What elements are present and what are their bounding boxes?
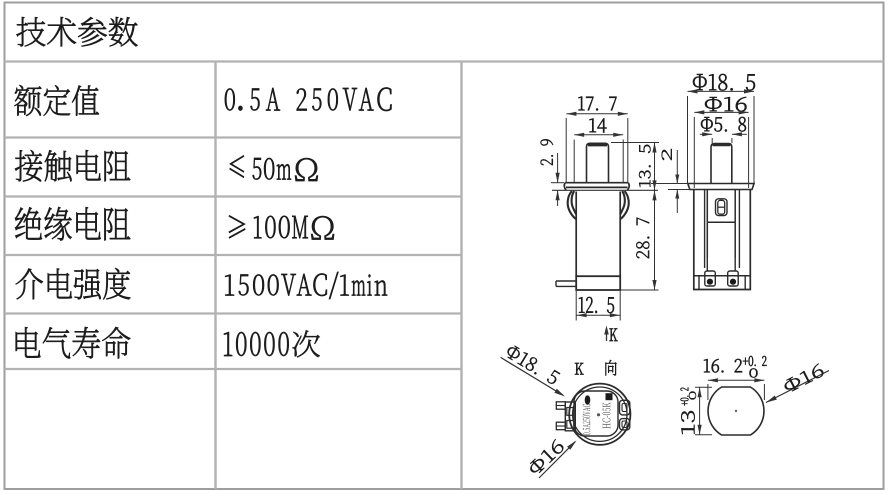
bottom view right tab 1 slot (622, 404, 627, 412)
leader Φ16 text (530, 439, 563, 473)
bottom view outer circle (569, 384, 630, 445)
dimension 28.7 extension line (621, 289, 659, 291)
front view left terminal lug (556, 281, 576, 286)
dimension 2.9 text (541, 139, 554, 165)
side view latch keyhole slot (718, 200, 725, 214)
bottom view right tab 1 (620, 400, 630, 415)
bottom view logo mark (606, 393, 613, 400)
dimension 12.5 text (579, 297, 614, 313)
bottom view terminal prong 2 (556, 422, 565, 430)
dimension 2.9 extension lines (551, 182, 564, 184)
dimension 16.2 arrows (708, 378, 718, 382)
bottom view molded mark (585, 395, 591, 405)
bottom view terminal plate hole 2 (567, 421, 574, 429)
table/drawing divider (460, 62, 462, 490)
leader Φ16 line (539, 442, 575, 478)
dimension Φ5.8 text (701, 117, 746, 132)
dimension 14 arrows (574, 133, 584, 137)
side view left rivet (707, 279, 713, 285)
leader Φ18.5 line (501, 357, 563, 395)
dimension 16.2 tolerance upper (743, 356, 767, 366)
bottom view terminal prong 1 (556, 402, 565, 409)
dimension 13.5 line (654, 143, 656, 191)
row line 1 (5, 136, 462, 138)
front view flange bottom edge line (552, 189, 658, 191)
dimension Φ16 arrows (694, 110, 704, 114)
dimension 13 tolerance lower (689, 392, 696, 400)
side view left foot (705, 271, 716, 286)
value ≥100MΩ (229, 215, 334, 239)
leader Φ16 cutout text (785, 364, 824, 392)
dimension Φ18.5 text (693, 74, 755, 91)
dimension 13 extension lines (695, 386, 712, 388)
title row underline (5, 60, 884, 62)
table column divider (214, 62, 216, 490)
front view terminal block (576, 276, 620, 290)
side view button cap and shaft (711, 144, 732, 184)
label 介电强度 (16, 268, 131, 300)
side view right leg (734, 258, 736, 271)
front view right snap hook (620, 191, 629, 219)
dimension 17.7 line (566, 113, 627, 115)
dimension 2.9 lines (557, 153, 559, 183)
front view body right wall (619, 192, 621, 277)
dimension 2 extension lines (651, 183, 688, 185)
view direction K arrow (606, 329, 608, 341)
side view inner right wall (738, 190, 740, 269)
cutout shape (708, 387, 764, 435)
row line 5 (5, 368, 462, 370)
view direction K letter (610, 329, 618, 342)
bottom view face plate (574, 391, 618, 436)
front view cap top thick edge (588, 143, 607, 146)
dimension 14 extension lines (573, 140, 575, 183)
value 10000次 (224, 330, 320, 357)
dimension 2 arrows (675, 175, 679, 184)
row line 3 (5, 254, 462, 256)
dimension Φ16 line (694, 111, 748, 113)
bottom view right tab 2 slot (622, 421, 627, 428)
dimension Φ16 extension lines (693, 117, 695, 188)
cutout center dot (735, 410, 737, 412)
dimension Φ18.5 arrows (688, 89, 698, 93)
dimension 17.7 arrows (566, 112, 576, 116)
dimension 13.5 text (639, 145, 651, 187)
dimension Φ16 text (705, 97, 747, 112)
value ≤50mΩ (230, 155, 318, 181)
dimension 17.7 text (579, 97, 617, 111)
label 绝缘电阻 (15, 207, 130, 241)
side view left leg (706, 258, 708, 271)
front view flange (564, 183, 629, 191)
label 额定值 (15, 85, 100, 116)
side view latch keyhole outer (716, 199, 728, 216)
bottom view rating text (583, 404, 591, 435)
side view base top line (694, 275, 751, 277)
dimension 13 line (699, 387, 701, 435)
dimension Φ18.5 extension lines (687, 96, 689, 183)
side view cap top thick edge (713, 144, 731, 146)
dimension 2 lines (676, 150, 678, 184)
row line 2 (5, 195, 462, 197)
bottom view inner circle (573, 387, 627, 441)
label 电气寿命 (16, 327, 131, 359)
dimension 2 text (662, 149, 672, 160)
side view outer body (694, 190, 751, 290)
view label 向 (606, 360, 617, 376)
bottom view center dot (597, 413, 600, 416)
dimension 28.7 text (636, 218, 649, 259)
dimension 28.7 line (654, 190, 656, 290)
dimension 12.5 arrows (577, 313, 587, 317)
dimension 13 arrows (698, 387, 702, 397)
dimension 13 text (681, 411, 695, 434)
dimension 12.5 extension lines (575, 291, 577, 321)
value 1500VAC/1min (225, 272, 387, 299)
dimension 13 tolerance upper (681, 388, 689, 406)
label 接触电阻 (15, 150, 130, 182)
dimension 16.2 tolerance lower (750, 369, 758, 378)
side view right rivet (730, 279, 736, 285)
bottom view terminal plate hole 1 (567, 408, 574, 416)
side view inner left wall (704, 190, 706, 269)
dimension 14 line (574, 134, 623, 136)
leader Φ16 cutout line (766, 371, 829, 403)
front view body left wall (575, 192, 577, 277)
front view button cap and shaft (587, 143, 609, 182)
dimension 14 text (590, 119, 607, 133)
dimension 16.2 extension lines (707, 384, 709, 400)
bottom view right tab 2 (620, 419, 630, 430)
dimension Φ5.8 arrows (702, 132, 712, 136)
dimension 16.2 line (708, 379, 765, 381)
side view right foot (728, 271, 739, 286)
dimension Φ18.5 line (688, 90, 755, 92)
bottom view model text (603, 403, 611, 429)
leader Φ18.5 text (508, 346, 561, 384)
row line 4 (5, 312, 462, 314)
dimension Φ5.8 lines (700, 133, 712, 135)
bottom view terminal plate (565, 402, 575, 431)
dimension 13.5 arrows (652, 143, 656, 153)
dimension 12.5 line (576, 314, 620, 316)
side view plunger column (707, 190, 735, 259)
dimension 16.2 text (704, 359, 742, 373)
side view base inner verticals (698, 276, 700, 290)
title 技术参数 (17, 17, 138, 47)
dimension 28.7 arrows (652, 190, 656, 200)
dimension 2.9 arrows (556, 173, 560, 183)
value 0.5A 250VAC (225, 88, 392, 112)
side view flange (688, 184, 754, 190)
front view left snap hook (568, 191, 577, 219)
dimension 17.7 extension lines (565, 118, 567, 182)
view label K (575, 363, 584, 375)
dimension 13.5 extension lines (611, 142, 659, 144)
dimension Φ5.8 extension lines (711, 138, 713, 143)
